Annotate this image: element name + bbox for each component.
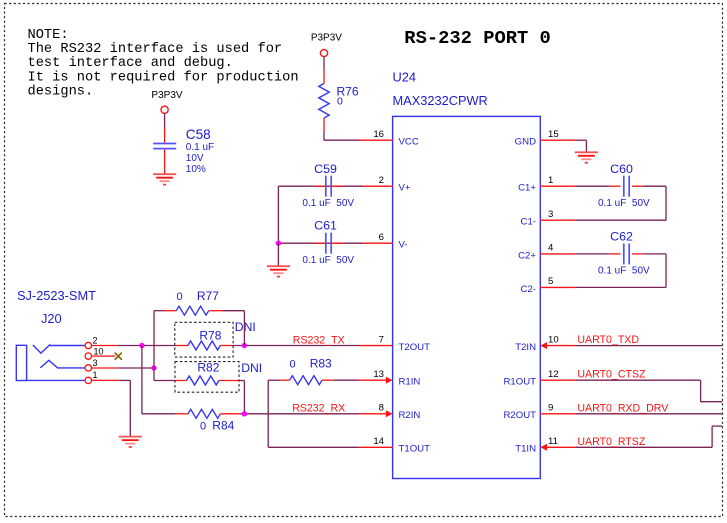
svg-text:R1OUT: R1OUT: [503, 377, 536, 388]
svg-text:T2OUT: T2OUT: [399, 342, 431, 353]
wire junction down to R84: [141, 346, 143, 414]
net label UART0_CTSZ: [577, 369, 646, 381]
wire P3P3V to C58: [164, 113, 166, 142]
pin 1 C1+ (right): [518, 175, 575, 194]
pin 10 (J20): [85, 347, 115, 360]
capacitor C59: [302, 162, 354, 209]
svg-text:P3P3V: P3P3V: [151, 90, 182, 101]
wire vertical R77-R82: [153, 311, 155, 381]
ground (C59/C61 rail): [267, 266, 290, 276]
resistor R78: [175, 328, 232, 350]
label DNI (R78): [235, 320, 256, 334]
svg-text:2: 2: [379, 175, 384, 186]
resistor R76: [319, 84, 359, 119]
wire GND pin15 to ground: [575, 140, 587, 151]
svg-text:R78: R78: [199, 328, 221, 342]
wire UART0_CTSZ: [575, 380, 722, 402]
pin 2 (J20): [85, 335, 117, 348]
svg-text:R83: R83: [310, 356, 332, 370]
pin 3 C1- (right): [521, 209, 575, 228]
svg-text:16: 16: [373, 129, 384, 140]
svg-text:C2-: C2-: [521, 284, 536, 295]
svg-text:R1IN: R1IN: [399, 377, 421, 388]
svg-text:T2IN: T2IN: [515, 342, 536, 353]
svg-text:0: 0: [200, 420, 206, 432]
wire J20 pin1 to ground: [119, 380, 131, 436]
svg-text:0: 0: [337, 96, 343, 108]
pin 11 T1IN (right): [515, 436, 575, 455]
svg-text:1: 1: [93, 370, 98, 380]
svg-text:0.1 uF 50V: 0.1 uF 50V: [598, 198, 650, 209]
svg-text:T1OUT: T1OUT: [399, 444, 431, 455]
net label UART0_RTSZ: [577, 436, 645, 448]
junction pin3: [151, 365, 156, 370]
svg-text:NOTE:: NOTE:: [28, 28, 69, 43]
svg-text:1: 1: [548, 175, 553, 186]
wire R84 to R2IN pin8 RS232_RX: [240, 413, 359, 415]
net label UART0_TXD: [577, 334, 639, 346]
no-connect X on pin 10: [115, 353, 122, 360]
ground (GND pin): [575, 152, 598, 162]
svg-text:4: 4: [548, 243, 554, 254]
pin 13 R1IN (left): [359, 369, 421, 388]
svg-text:3: 3: [93, 358, 98, 368]
svg-text:J20: J20: [41, 311, 62, 326]
DNI box R78: [175, 322, 233, 357]
svg-text:C2+: C2+: [518, 250, 536, 261]
svg-text:0.1 uF 50V: 0.1 uF 50V: [302, 198, 354, 209]
svg-text:0.1 uF: 0.1 uF: [186, 142, 214, 153]
svg-text:RS232_TX: RS232_TX: [293, 334, 345, 346]
wire jack pin2 to R78: [117, 345, 175, 347]
wire R76 to VCC pin 16: [324, 118, 363, 140]
svg-text:10: 10: [94, 347, 104, 357]
svg-text:C62: C62: [610, 230, 633, 244]
svg-text:9: 9: [548, 403, 553, 414]
svg-text:10V: 10V: [186, 153, 204, 164]
DNI box R82: [175, 362, 239, 393]
svg-text:5: 5: [548, 276, 553, 287]
resistor R77: [154, 289, 223, 315]
svg-text:DNI: DNI: [235, 320, 256, 334]
svg-text:designs.: designs.: [28, 84, 94, 99]
pin 9 R2OUT (right): [503, 403, 574, 422]
svg-text:UART0_CTSZ: UART0_CTSZ: [577, 369, 646, 381]
wire UART0_RXD_DRV: [575, 413, 722, 415]
svg-text:R2OUT: R2OUT: [503, 410, 536, 421]
pin 12 R1OUT (right): [503, 369, 574, 388]
pin 10 T2IN (right): [515, 334, 575, 353]
resistor R83: [268, 356, 334, 384]
svg-text:2: 2: [93, 335, 98, 345]
svg-text:0: 0: [289, 358, 295, 370]
op-amp U24 MAX3232CPWR body: [393, 70, 541, 479]
svg-text:14: 14: [373, 436, 384, 447]
junction rail-C61: [276, 241, 281, 246]
svg-text:C61: C61: [314, 219, 337, 233]
wire V- to C61 rail: [278, 242, 362, 244]
svg-text:7: 7: [379, 334, 384, 345]
wire jack pin3 to vertical: [117, 367, 154, 369]
svg-text:10%: 10%: [186, 164, 206, 175]
pin 7 T2OUT (left): [359, 334, 431, 353]
svg-text:13: 13: [373, 369, 384, 380]
resistor R84: [142, 409, 240, 432]
pin 4 C2+ (right): [518, 243, 575, 262]
resistor R82: [154, 360, 239, 385]
svg-text:GND: GND: [515, 137, 536, 148]
svg-text:U24: U24: [393, 70, 416, 85]
pin 8 R2IN (left): [359, 403, 421, 422]
pin 1 (J20): [85, 370, 119, 383]
svg-text:P3P3V: P3P3V: [311, 32, 342, 43]
pin 3 (J20): [85, 358, 117, 371]
junction TX: [242, 343, 247, 348]
wire UART0_TXD: [575, 345, 722, 347]
wire UART0_RTSZ: [575, 426, 722, 447]
svg-text:10: 10: [548, 334, 559, 345]
svg-text:15: 15: [548, 129, 559, 140]
svg-text:T1IN: T1IN: [515, 444, 536, 455]
label DNI (R82): [241, 361, 262, 375]
title RS-232 PORT 0: [404, 27, 551, 49]
svg-text:V+: V+: [399, 183, 411, 194]
pin 15 GND (right): [515, 129, 575, 148]
capacitor C58: [153, 127, 214, 175]
wire P3P3V to R76: [323, 57, 325, 84]
svg-text:test interface and debug.: test interface and debug.: [28, 56, 233, 71]
power symbol P3P3V (R76): [311, 32, 342, 56]
wire C58 to ground: [164, 150, 166, 174]
pin 5 C2- (right): [521, 276, 575, 295]
svg-text:MAX3232CPWR: MAX3232CPWR: [393, 93, 488, 108]
wire C2+ to C62 loop to C2-: [575, 254, 666, 288]
wire R83 to T1OUT pin14: [268, 380, 358, 447]
svg-text:UART0_RTSZ: UART0_RTSZ: [577, 436, 645, 448]
svg-text:RS232_RX: RS232_RX: [292, 403, 345, 415]
svg-text:R77: R77: [197, 289, 219, 303]
net label UART0_RXD_DRV: [577, 402, 669, 414]
capacitor C62: [598, 230, 650, 277]
connector J20 SJ-2523-SMT symbol: [16, 288, 96, 381]
svg-text:12: 12: [548, 369, 559, 380]
svg-text:0: 0: [176, 291, 182, 303]
net label RS232_TX: [293, 334, 345, 346]
power symbol P3P3V (C58): [151, 90, 182, 113]
junction pin2/R84: [139, 343, 144, 348]
svg-text:It is not required for product: It is not required for production: [28, 70, 299, 85]
svg-text:3: 3: [548, 209, 553, 220]
svg-text:VCC: VCC: [399, 137, 419, 148]
svg-text:C60: C60: [610, 162, 633, 176]
svg-text:SJ-2523-SMT: SJ-2523-SMT: [17, 288, 96, 303]
wire R77 to TX junction: [223, 311, 245, 346]
note text block: [28, 28, 299, 99]
wire C1+ to C60 loop to C1-: [575, 186, 666, 220]
svg-text:R82: R82: [197, 360, 219, 374]
wire rail to ground: [277, 243, 279, 265]
svg-text:C59: C59: [314, 162, 337, 176]
svg-text:C1-: C1-: [521, 217, 536, 228]
svg-text:C1+: C1+: [518, 183, 536, 194]
pin 14 T1OUT (left): [359, 436, 431, 455]
pin 6 V- (left): [359, 232, 408, 251]
pin 2 V+ (left): [359, 175, 411, 194]
svg-text:V-: V-: [399, 240, 408, 251]
capacitor C61: [302, 219, 354, 267]
svg-text:0.1 uF 50V: 0.1 uF 50V: [302, 255, 354, 266]
svg-text:C58: C58: [186, 127, 211, 142]
wire V+ to C59 to rail: [278, 186, 362, 243]
svg-text:DNI: DNI: [241, 361, 262, 375]
pin 16 VCC (left): [359, 129, 419, 148]
svg-text:6: 6: [379, 232, 384, 243]
svg-text:UART0_TXD: UART0_TXD: [577, 334, 639, 346]
capacitor C60: [598, 162, 650, 209]
svg-text:The RS232 interface is used fo: The RS232 interface is used for: [28, 42, 283, 57]
svg-text:R84: R84: [212, 418, 234, 432]
svg-text:R2IN: R2IN: [399, 410, 421, 421]
wire R78 to T2OUT pin7 RS232_TX: [232, 345, 359, 347]
junction RX: [242, 411, 247, 416]
net label RS232_RX: [292, 403, 345, 415]
wire R83 to R1IN pin13: [334, 379, 359, 381]
svg-text:11: 11: [548, 436, 558, 447]
svg-text:RS-232 PORT 0: RS-232 PORT 0: [404, 27, 551, 49]
svg-text:0.1 uF 50V: 0.1 uF 50V: [598, 266, 650, 277]
svg-text:8: 8: [379, 403, 384, 414]
ground (J20): [119, 437, 142, 447]
wire R82 to RX junction: [239, 381, 245, 414]
svg-text:UART0_RXD_DRV: UART0_RXD_DRV: [577, 402, 669, 414]
ground (C58): [153, 174, 176, 184]
